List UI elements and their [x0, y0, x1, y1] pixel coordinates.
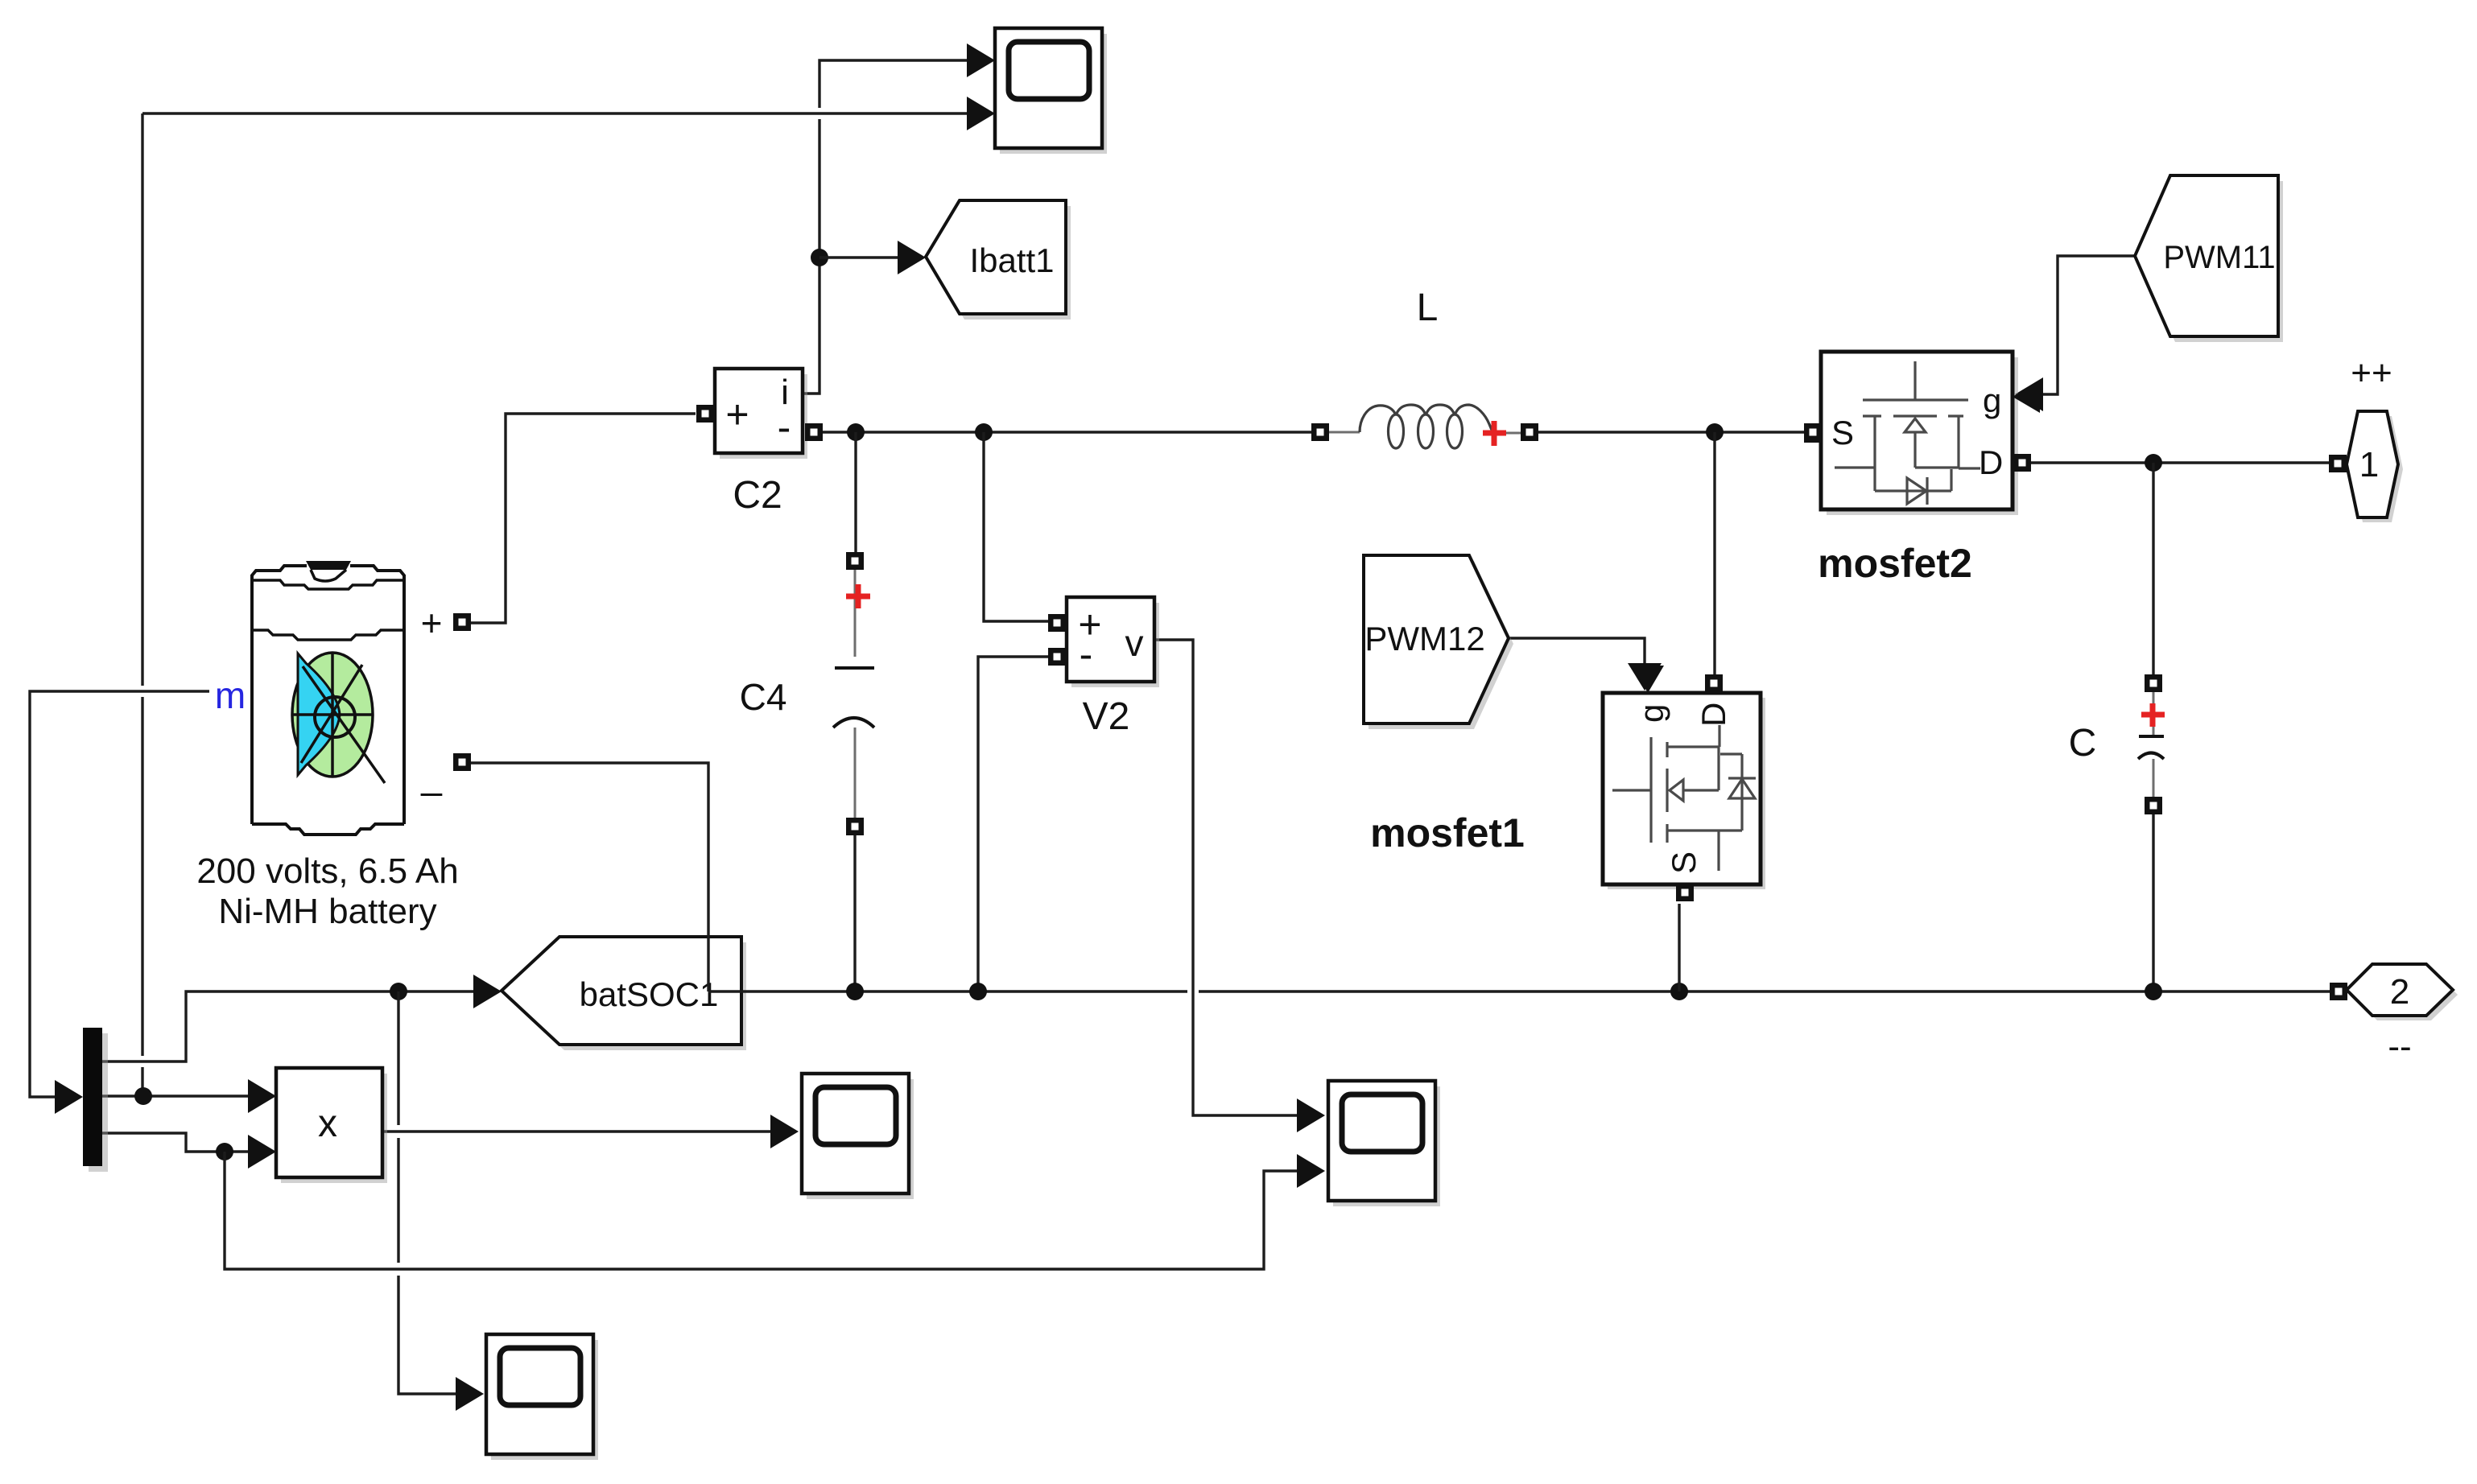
- inductor L port left: [1311, 423, 1329, 441]
- svg-text:batSOC1: batSOC1: [580, 975, 719, 1013]
- node: bus junction mosfet1 S: [1670, 983, 1688, 1000]
- mosfet1 block (rotated): [1603, 666, 1765, 901]
- wire: V2 minus input down to bus: [978, 657, 1049, 991]
- port square port1: [2329, 455, 2347, 472]
- svg-text:v: v: [1125, 622, 1144, 664]
- port square battery plus: [453, 613, 471, 631]
- wire: demux out1 to batSOC1 tag: [102, 991, 473, 1061]
- arrowhead into demux: [55, 1080, 83, 1114]
- wire: mosfet1 S down to bus: [1678, 904, 1680, 991]
- port square C4 top: [846, 552, 864, 570]
- svg-text:PWM11: PWM11: [2163, 240, 2275, 275]
- node: rail junction to V2 plus: [975, 423, 993, 441]
- wire: demux out2 to product block input 1: [102, 1094, 248, 1097]
- tag PWM12: [1364, 555, 1513, 729]
- svg-text:C4: C4: [740, 676, 787, 718]
- port square C bottom: [2145, 797, 2162, 814]
- wire: electrical bus to output port 2: [708, 990, 2330, 992]
- block V2 voltage measurement: [1067, 597, 1159, 687]
- svg-text:_: _: [420, 755, 443, 797]
- svg-text:1: 1: [2359, 445, 2379, 484]
- port square C2 input: [696, 405, 714, 423]
- arrowhead into Ibatt1 tag: [898, 241, 926, 274]
- inductor red plus: [1483, 421, 1506, 446]
- arrowhead into Scope input 1: [967, 43, 995, 77]
- arrowhead into product input 1: [248, 1079, 276, 1113]
- port square C4 bottom: [846, 818, 864, 835]
- wire: battery plus to C2: [471, 414, 696, 623]
- scope Scope4 (bottom left): [486, 1334, 598, 1460]
- svg-text:x: x: [318, 1103, 337, 1145]
- wire: junction down to C4 top: [854, 432, 857, 553]
- node: junction on batSOC1 wire to Scope4: [390, 983, 407, 1000]
- wire: inductor L to mosfet2 S: [1538, 431, 1805, 433]
- output port 1 hexagon: [2347, 411, 2403, 522]
- svg-text:L: L: [1417, 286, 1439, 329]
- svg-text:Ibatt1: Ibatt1: [969, 241, 1054, 279]
- wire: junction down to V2 plus input: [984, 432, 1049, 621]
- wire: C2 current output i up to Scope: [803, 60, 967, 394]
- inductor L coil: [1329, 432, 1521, 433]
- wire: mosfet2 D output to output port 1: [2030, 461, 2330, 464]
- wire: main rail C2 to inductor L: [822, 431, 1312, 433]
- svg-text:2: 2: [2390, 972, 2409, 1012]
- scope Scope3 (product output): [802, 1074, 914, 1199]
- node: junction on demux out3: [216, 1143, 233, 1160]
- svg-text:+: +: [421, 602, 443, 644]
- port square port2: [2330, 983, 2347, 1000]
- tag PWM11: [2135, 175, 2283, 342]
- port square C top: [2145, 674, 2162, 692]
- wire: demux out3 to product block input 2: [102, 1133, 248, 1152]
- node: rail junction to C4: [847, 423, 865, 441]
- tag batSOC1: [502, 937, 746, 1050]
- wire: battery m output to demux input: [30, 691, 209, 1097]
- svg-text:--: --: [2388, 1027, 2411, 1066]
- capacitor C: [2138, 691, 2165, 798]
- wire: capacitor C bottom to bus: [2152, 814, 2154, 991]
- node: junction to capacitor C: [2145, 454, 2162, 472]
- svg-text:C: C: [2069, 722, 2097, 765]
- node: bus junction V2 minus: [969, 983, 987, 1000]
- wire: demux out2 up-left long wire to Scope input 2: [142, 113, 967, 1096]
- arrowhead into Scope4: [456, 1377, 484, 1411]
- port square mosfet2 S: [1804, 423, 1822, 441]
- wire: C4 bottom to bus: [853, 835, 856, 991]
- svg-text:-: -: [1080, 632, 1093, 677]
- svg-text:mosfet2: mosfet2: [1818, 541, 1972, 586]
- wire: junction down to capacitor C top: [2152, 463, 2154, 675]
- mosfet2 block: [1804, 352, 2040, 515]
- svg-text:++: ++: [2351, 353, 2392, 393]
- capacitor C4: [833, 569, 874, 818]
- wire: rail junction down to mosfet1 D: [1713, 432, 1715, 676]
- scope Scope5 (bottom right, 2 inputs): [1328, 1081, 1440, 1206]
- node: junction on demux out2: [134, 1087, 152, 1105]
- svg-text:mosfet1: mosfet1: [1370, 810, 1525, 855]
- node: bus junction capacitor C: [2145, 983, 2162, 1000]
- wire: V2 output down to Scope5 input 1: [1154, 640, 1297, 1115]
- node: rail junction to mosfet1 D: [1706, 423, 1724, 441]
- wire: PWM11 tag to mosfet2 gate: [2043, 256, 2135, 394]
- block product x: [276, 1068, 387, 1183]
- wire: product output to Scope3: [382, 1130, 770, 1132]
- arrowhead into mosfet2 gate (left pointing): [2015, 377, 2043, 411]
- svg-text:-: -: [778, 405, 791, 450]
- wire: battery minus over tag down to bus: [471, 763, 708, 991]
- port square V2 minus: [1048, 648, 1066, 666]
- svg-text:Ni-MH battery: Ni-MH battery: [218, 892, 436, 931]
- scope Scope (top, 2 inputs): [995, 28, 1107, 154]
- arrowhead into Scope5 input 1: [1297, 1099, 1325, 1132]
- node: junction on Ibatt wire: [811, 249, 828, 266]
- svg-text:m: m: [215, 674, 246, 716]
- arrowhead into batSOC1 tag: [473, 975, 502, 1008]
- node: bus junction C4: [846, 983, 864, 1000]
- svg-text:PWM12: PWM12: [1364, 620, 1484, 657]
- battery block: [252, 561, 404, 835]
- svg-text:V2: V2: [1083, 695, 1130, 738]
- svg-text:+: +: [725, 392, 749, 437]
- svg-text:200 volts, 6.5 Ah: 200 volts, 6.5 Ah: [196, 851, 458, 891]
- arrowhead into Scope5 input 2: [1297, 1154, 1325, 1188]
- wire: PWM12 tag to mosfet1 gate: [1509, 638, 1645, 663]
- inductor L port right: [1521, 423, 1538, 441]
- arrowhead into product input 2: [248, 1135, 276, 1169]
- port square C2 output: [805, 423, 823, 441]
- port square V2 plus: [1048, 614, 1066, 632]
- output port 2 hexagon: [2347, 964, 2458, 1020]
- tag Ibatt1: [926, 200, 1071, 319]
- wire: junction down to Scope4: [398, 991, 456, 1394]
- port square battery minus: [453, 753, 471, 771]
- arrowhead into mosfet1 gate (down pointing): [1628, 663, 1662, 690]
- wire: demux out3 branch down to Scope5 input 2: [225, 1152, 1297, 1269]
- arrowhead into Scope3: [770, 1115, 799, 1148]
- svg-text:C2: C2: [733, 474, 782, 517]
- arrowhead into Scope input 2: [967, 97, 995, 130]
- block C2 current measurement: [715, 369, 807, 459]
- wire: branch to Ibatt1 tag: [819, 256, 898, 258]
- demux: [83, 1028, 108, 1172]
